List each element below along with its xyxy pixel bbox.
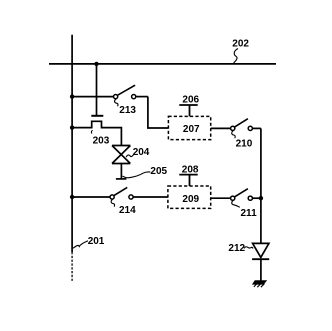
svg-text:212: 212 — [228, 243, 245, 254]
svg-text:209: 209 — [182, 194, 199, 205]
svg-text:205: 205 — [150, 166, 167, 177]
svg-text:213: 213 — [119, 105, 136, 116]
svg-text:214: 214 — [119, 205, 136, 216]
svg-text:204: 204 — [133, 147, 150, 158]
svg-text:206: 206 — [182, 94, 199, 105]
svg-text:211: 211 — [241, 208, 258, 219]
svg-text:210: 210 — [236, 138, 253, 149]
svg-text:207: 207 — [183, 124, 200, 135]
svg-text:203: 203 — [93, 135, 110, 146]
svg-text:201: 201 — [88, 236, 105, 247]
svg-text:202: 202 — [232, 39, 249, 50]
svg-text:208: 208 — [182, 164, 199, 175]
